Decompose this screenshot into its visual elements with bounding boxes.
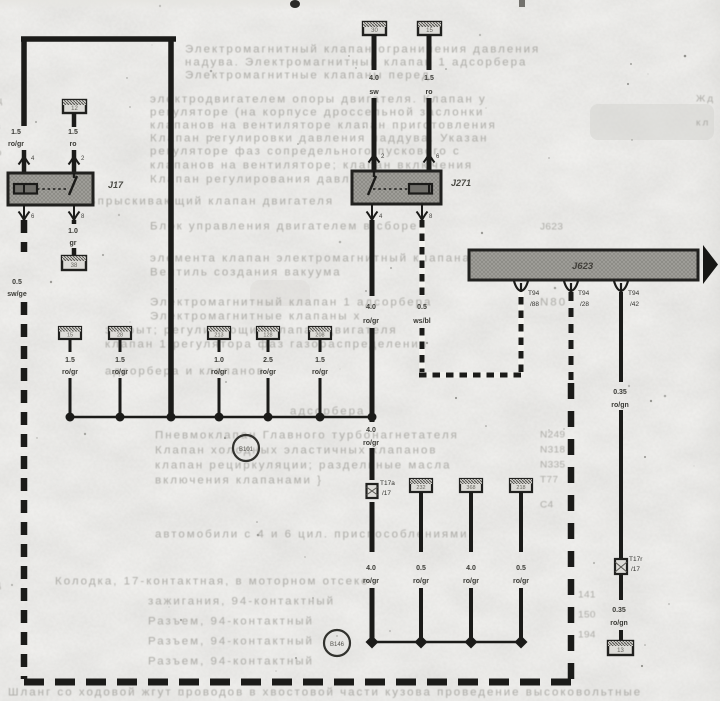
svg-text:2: 2 [81,156,85,162]
svg-text:ro/gr: ro/gr [62,369,78,376]
svg-text:1.0: 1.0 [214,357,224,364]
svg-text:ro/gr: ro/gr [112,369,128,376]
pin arrow 6 (J271 top-right) [424,154,435,171]
svg-text:2: 2 [381,154,385,160]
pin fork T94/88 [514,281,528,292]
svg-text:/17: /17 [382,490,391,497]
svg-text:1.5: 1.5 [424,75,434,82]
svg-text:1.0: 1.0 [68,228,78,235]
wire: bus terminal 2 down [119,339,122,417]
terminal 15 (bus terminal 1) [59,327,81,339]
relay J271 box [352,171,441,204]
svg-text:/28: /28 [580,301,589,308]
svg-text:4.0: 4.0 [366,304,376,311]
svg-text:T94: T94 [528,290,540,297]
wire: ground bus (bottom horizontal) [372,641,521,644]
svg-text:ro: ro [426,89,433,96]
wire: terminal 232 down [419,492,423,642]
svg-text:4: 4 [31,156,35,162]
svg-text:0.35: 0.35 [613,389,627,396]
arrow (diagram continuation) [703,245,718,284]
pin arrow 8 (J17 bottom-right) [69,205,80,220]
relay J271 switch blade [368,176,376,195]
label 0.5 ro/gr [413,565,429,585]
label 1.0 ro/gr [211,357,227,376]
wire: left edge into J17 [22,150,27,173]
pin arrow 2 (J17 top-right) [69,156,80,173]
terminal 12 (top, feeds J17 pin) [63,100,86,113]
svg-text:ro/gn: ro/gn [610,620,628,627]
wire: terminal 218 down [519,492,523,642]
wire: J271 pin 4 down to bus junction [370,220,375,417]
inline connector T17a/17 [367,484,378,498]
svg-text:ro/gr: ro/gr [413,578,429,585]
svg-text:4: 4 [379,214,383,220]
svg-text:4.0: 4.0 [366,565,376,572]
svg-text:/88: /88 [530,301,539,308]
wire: plus bus (horizontal) [70,416,373,419]
svg-text:232: 232 [416,485,425,491]
label 4.0 ro/gr (upper) [363,427,379,447]
terminal 128 (bus terminal 4) [257,327,279,339]
svg-text:ro/gr: ro/gr [513,578,529,585]
svg-text:ro: ro [70,141,77,148]
wire: J17 pin 8 down to terminal 38 [72,220,77,256]
wire continues below connector [619,575,623,641]
wire: top-left supply box right edge down to bus [168,39,174,417]
control unit J623 box [469,250,698,280]
svg-text:1.5: 1.5 [11,129,21,136]
svg-text:J271: J271 [451,178,471,188]
pin arrow 6 (J17 bottom-left) [19,205,30,220]
speck top mid [519,0,525,7]
label 1.5 ro [424,75,434,96]
svg-text:sw: sw [369,89,379,96]
label 1.5 ro/gr (left wire) [8,129,24,148]
svg-text:ro/gr: ro/gr [8,141,24,148]
label 1.5 ro/gr [312,357,328,376]
svg-text:1.5: 1.5 [315,357,325,364]
svg-text:6: 6 [436,154,440,160]
label 0.35 ro/gn [611,389,629,409]
svg-text:2.5: 2.5 [263,357,273,364]
wire: terminal 15 down to J271 [427,35,432,150]
wire: top-left supply box left edge [21,39,27,126]
label 4.0 ro/gr [463,565,479,585]
svg-text:T17r: T17r [629,556,643,563]
wire: bus terminal 5 down [319,339,322,417]
pin arrow 2 (J271 top-left) [369,154,380,171]
label 1.5 ro/gr [112,357,128,376]
wire: T94/28 dashed down to border [569,292,574,380]
label 1.5 ro (right wire) [68,129,78,148]
pin fork T94/42 [614,281,628,292]
relay J17 coil [14,184,37,194]
svg-text:J17: J17 [108,180,124,190]
wire: J271 pin 8 ws/bl dashed to J623 T94/88 [419,220,521,375]
svg-text:T94: T94 [628,290,640,297]
terminal 213 (bus terminal 3) [208,327,230,339]
wire: terminal 12 to J17 [72,113,77,173]
svg-text:8: 8 [429,214,433,220]
svg-text:0.5: 0.5 [516,565,526,572]
svg-text:218: 218 [516,485,525,491]
svg-text:0.5: 0.5 [417,304,427,311]
terminal 232 [410,479,432,492]
svg-text:sw/ge: sw/ge [7,291,27,298]
svg-text:8: 8 [81,214,85,220]
terminal 208 (bus terminal 5) [309,327,331,339]
wire: dashed border left continues [21,302,28,679]
svg-text:4.0: 4.0 [366,427,376,434]
svg-text:ro/gr: ro/gr [363,318,379,325]
wire: T94/42 down [619,292,623,558]
svg-text:128: 128 [263,333,272,339]
svg-text:B146: B146 [330,642,345,648]
svg-text:ro/gn: ro/gn [611,402,629,409]
svg-text:J623: J623 [572,261,594,272]
wire short stubs into J271 [374,150,429,171]
label 0.5 ws/bl [412,304,431,325]
wire: terminal 30 down to J271 [372,35,377,150]
label 2.5 ro/gr [260,357,276,376]
svg-text:15: 15 [426,28,433,34]
svg-text:368: 368 [466,485,475,491]
terminal 218 [510,479,532,492]
label 4.0 ro/gr [363,304,379,325]
svg-text:ro/gr: ro/gr [363,578,379,585]
wire: bus junction down (4.0 ro/gr) [370,417,375,642]
wire: dashed border left (sw/ge) [21,220,28,252]
svg-text:T17a: T17a [380,480,395,487]
svg-text:15: 15 [67,333,73,339]
label 1.0 gr [68,228,78,247]
svg-text:/42: /42 [630,301,639,308]
wire: bus terminal 1 down [69,339,72,417]
svg-text:13: 13 [617,648,624,654]
terminal 13 [608,641,633,655]
relay J271 coil [409,184,432,194]
label 0.5 ro/gr [513,565,529,585]
svg-text:1.5: 1.5 [115,357,125,364]
pin arrow 8 (J271 bottom-right) [417,204,428,220]
wire: bus terminal 3 down [218,339,221,417]
svg-text:38: 38 [71,263,78,269]
svg-text:ro/gr: ro/gr [363,440,379,447]
svg-text:6: 6 [31,214,35,220]
svg-text:208: 208 [315,333,324,339]
label 4.0 ro/gr (lower) [363,565,379,585]
svg-text:ro/gr: ro/gr [211,369,227,376]
svg-text:ro/gr: ro/gr [260,369,276,376]
pin fork T94/28 [564,281,578,292]
wire: dashed border bottom [24,679,571,686]
svg-text:ro/gr: ro/gr [463,578,479,585]
wire: top-left supply box top edge [21,36,176,42]
terminal 28 (bus terminal 2) [109,327,131,339]
label 0.5 sw/ge [7,279,27,298]
svg-text:0.5: 0.5 [416,565,426,572]
svg-text:B101: B101 [239,447,254,453]
terminal 30 (top feed A) [363,22,386,35]
svg-text:ws/bl: ws/bl [412,318,431,325]
wire: terminal 368 down [469,492,473,642]
relay J17 link (dashed) [37,188,66,190]
relay J271 link (dashed) [373,188,408,190]
node circle B146 [324,630,350,656]
svg-text:/17: /17 [631,566,640,573]
junction diamonds on ground bus [366,636,528,649]
svg-text:4.0: 4.0 [369,75,379,82]
svg-text:0.35: 0.35 [612,607,626,614]
terminal 15a (top feed B) [418,22,441,35]
label 4.0 sw [369,75,379,96]
node circle B101 [233,435,259,461]
svg-text:4.0: 4.0 [466,565,476,572]
label 0.35 ro/gn [610,607,628,627]
inline connector T17r/17 [615,559,627,574]
svg-text:213: 213 [214,333,223,339]
svg-text:1.5: 1.5 [68,129,78,136]
speck top edge [290,0,300,8]
wire: bus terminal 4 down [267,339,270,417]
label 1.5 ro/gr [62,357,78,376]
svg-text:12: 12 [71,106,78,112]
pin arrow 4 (J17 top-left) [19,156,30,173]
relay J17 switch blade [69,176,77,195]
terminal 38 [62,256,86,270]
svg-text:ro/gr: ro/gr [312,369,328,376]
relay J17 box [8,173,93,205]
junction dots on bus [66,413,377,422]
svg-text:gr: gr [70,240,77,247]
pin arrow 4 (J271 bottom-left) [367,204,378,220]
svg-text:0.5: 0.5 [12,279,22,286]
svg-text:1.5: 1.5 [65,357,75,364]
terminal 368 [460,479,482,492]
svg-text:T94: T94 [578,290,590,297]
svg-text:28: 28 [117,333,123,339]
svg-text:30: 30 [371,28,378,34]
